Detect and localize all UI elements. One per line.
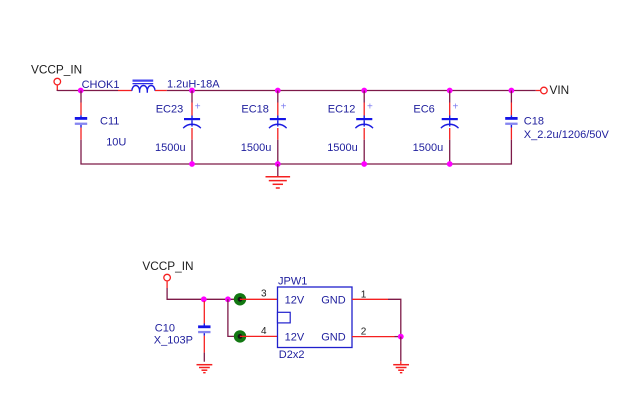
ground (under JPW1) <box>393 365 409 373</box>
capacitor C11 <box>75 91 127 165</box>
wire maroon pin2 to junction <box>395 336 401 338</box>
wire bottom rail <box>80 163 512 165</box>
svg-text:4: 4 <box>261 326 267 337</box>
svg-text:C18: C18 <box>524 115 544 127</box>
wire red pin 3 <box>240 298 278 300</box>
junction dot C10 tap <box>201 296 207 302</box>
svg-text:JPW1: JPW1 <box>278 276 307 288</box>
JPW1 key square <box>278 312 291 323</box>
svg-text:+: + <box>195 102 201 113</box>
wire red ground tip <box>400 361 402 364</box>
wire branch down to pin 4 row <box>228 299 236 336</box>
wire maroon C11 top <box>80 91 82 103</box>
wire maroon C11 bottom <box>80 140 82 165</box>
svg-text:+: + <box>453 102 459 113</box>
via marker on pin 4 <box>234 330 246 342</box>
junction dot bottom EC12 <box>361 161 367 167</box>
capacitor EC18 <box>241 91 287 165</box>
svg-text:+: + <box>281 102 287 113</box>
connector JPW1 body <box>278 287 353 348</box>
svg-text:X_103P: X_103P <box>154 335 193 347</box>
svg-text:EC23: EC23 <box>156 104 184 116</box>
via marker on pin 3 <box>234 293 246 305</box>
junction dot bottom EC18 <box>275 161 281 167</box>
junction dot top EC6 <box>447 88 453 94</box>
junction dot bottom EC23 <box>189 161 195 167</box>
inductor CHOK1 core bars <box>133 79 154 81</box>
wire red inductor left pin <box>118 90 132 92</box>
svg-text:1500u: 1500u <box>155 142 186 154</box>
capacitor C10 <box>154 301 211 362</box>
svg-text:3: 3 <box>261 289 267 300</box>
svg-text:EC18: EC18 <box>241 104 269 116</box>
svg-text:GND: GND <box>321 332 346 344</box>
svg-text:VCCP_IN: VCCP_IN <box>31 62 82 76</box>
wire maroon pin1 corner <box>388 299 401 336</box>
ground (under C10) <box>197 365 213 373</box>
svg-text:EC6: EC6 <box>413 104 434 116</box>
junction dot GND branch <box>398 334 404 340</box>
junction dot top EC23 <box>189 88 195 94</box>
svg-text:1500u: 1500u <box>413 142 444 154</box>
ground (top section) <box>266 164 291 188</box>
C11 plate 1 <box>80 115 82 117</box>
capacitor C18 <box>505 91 609 165</box>
wire red C11 top pin <box>80 103 82 116</box>
svg-text:CHOK1: CHOK1 <box>82 79 120 91</box>
port terminal VIN (open circle) <box>541 87 548 94</box>
wire red stub below bottom VCCP_IN port <box>166 281 168 288</box>
svg-text:GND: GND <box>321 294 346 306</box>
wire red stub to VIN port <box>536 90 541 92</box>
svg-text:+: + <box>367 102 373 113</box>
wire red pin 2 <box>352 336 395 338</box>
svg-text:VIN: VIN <box>550 83 570 97</box>
svg-text:1500u: 1500u <box>241 142 272 154</box>
wire maroon down to bottom feed rail <box>167 288 234 299</box>
svg-text:VCCP_IN: VCCP_IN <box>142 259 193 273</box>
inductor CHOK1 coil <box>132 85 155 92</box>
svg-text:12V: 12V <box>285 332 305 344</box>
svg-text:X_2.2u/1206/50V: X_2.2u/1206/50V <box>524 129 610 141</box>
wire red pin 1 <box>352 298 388 300</box>
capacitor EC23 <box>155 91 201 165</box>
junction dot at C11 tap <box>78 88 84 94</box>
wire top rail left segment <box>57 90 118 93</box>
svg-text:EC12: EC12 <box>328 104 356 116</box>
junction dot top EC18 <box>275 88 281 94</box>
C11 plate 2 <box>75 123 87 125</box>
junction dot top EC12 <box>361 88 367 94</box>
svg-text:C11: C11 <box>100 116 119 128</box>
port terminal VCCP_IN (open circle) <box>54 78 61 85</box>
port terminal VCCP_IN bottom (open circle) <box>164 274 171 281</box>
junction dot bottom EC6 <box>447 161 453 167</box>
svg-text:C10: C10 <box>155 323 175 335</box>
wire red pin 4 <box>240 335 278 337</box>
wire red stub from VCCP_IN port down <box>56 85 58 90</box>
wire red C11 bottom pin <box>80 128 82 140</box>
junction dot top C18 <box>509 88 515 94</box>
svg-text:1500u: 1500u <box>327 142 358 154</box>
wire red inductor right pin <box>155 90 167 92</box>
capacitor EC12 <box>327 91 373 165</box>
wire top rail main segment <box>167 90 536 92</box>
svg-text:12V: 12V <box>285 294 305 306</box>
junction dot pin4 branch <box>225 296 231 302</box>
wire maroon down to ground <box>400 337 402 362</box>
svg-text:D2x2: D2x2 <box>279 349 305 361</box>
capacitor EC6 <box>413 91 459 165</box>
svg-text:10U: 10U <box>106 136 126 148</box>
